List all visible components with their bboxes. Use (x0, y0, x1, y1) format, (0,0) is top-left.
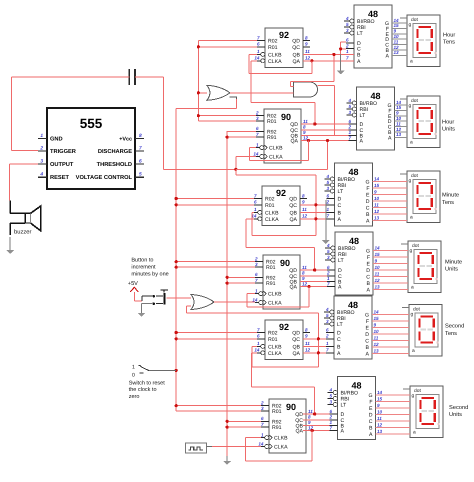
svg-text:D: D (338, 197, 342, 203)
counter U5 7490 (Minute Units) (252, 255, 307, 309)
svg-text:a: a (410, 141, 413, 146)
wire clock to CLKA6 (207, 446, 261, 448)
svg-text:12: 12 (394, 45, 400, 50)
junction (310, 53, 335, 63)
svg-text:13: 13 (375, 285, 381, 290)
svg-text:F: F (369, 400, 372, 406)
svg-text:7: 7 (348, 135, 351, 140)
ground (decoder3) (322, 234, 330, 244)
svg-text:LT: LT (338, 258, 344, 264)
svg-text:8: 8 (302, 193, 305, 198)
display Second Tens (402, 305, 442, 357)
svg-text:DISCHARGE: DISCHARGE (98, 149, 132, 155)
svg-text:GND: GND (50, 137, 63, 143)
svg-text:LT: LT (337, 322, 343, 328)
svg-text:CLKA: CLKA (265, 217, 279, 223)
svg-text:15: 15 (396, 105, 402, 110)
svg-text:48: 48 (370, 91, 380, 101)
svg-text:dot: dot (411, 17, 418, 23)
timer IC U1 555 (38, 108, 144, 189)
svg-text:R01: R01 (265, 203, 275, 209)
svg-text:R01: R01 (266, 265, 276, 271)
decoder U12 7448 (324, 296, 372, 359)
svg-text:Units: Units (449, 411, 462, 418)
svg-text:13: 13 (374, 216, 380, 221)
svg-text:15: 15 (375, 252, 381, 257)
svg-text:3: 3 (326, 186, 329, 191)
svg-text:A: A (341, 429, 345, 435)
svg-text:12: 12 (377, 423, 383, 428)
svg-text:OUTPUT: OUTPUT (50, 162, 74, 168)
svg-text:4: 4 (325, 174, 329, 179)
svg-text:D: D (369, 413, 373, 419)
wire OUTPUT to buzzer (10, 164, 38, 201)
svg-text:F: F (366, 319, 369, 325)
svg-text:11: 11 (394, 39, 399, 44)
svg-text:dot: dot (411, 98, 418, 104)
svg-text:7: 7 (257, 327, 260, 332)
AND gate U9 (294, 82, 318, 97)
decoder U11 7448 (325, 232, 373, 295)
counter U7 7490 (Second Units) (258, 399, 313, 453)
node label Hour Tens (443, 32, 455, 45)
wire QA2 to CLKB2 loop (250, 141, 309, 161)
svg-text:QC: QC (292, 45, 300, 51)
svg-text:11: 11 (374, 336, 379, 341)
svg-text:6: 6 (255, 272, 258, 277)
svg-text:R01: R01 (272, 409, 282, 415)
svg-text:90: 90 (286, 402, 296, 412)
svg-text:g: g (411, 313, 414, 318)
svg-text:6: 6 (257, 334, 260, 339)
svg-text:Units: Units (445, 266, 458, 273)
wire H169 right extension to QA2 (236, 141, 328, 170)
svg-text:8: 8 (308, 415, 311, 420)
wire OR U10 lower input from second-tens carry (187, 306, 319, 367)
svg-text:F: F (367, 255, 370, 261)
junction (234, 168, 237, 171)
svg-text:14: 14 (258, 441, 264, 446)
svg-text:8: 8 (302, 271, 305, 276)
svg-text:13: 13 (374, 349, 380, 354)
wire (decoder to display segments) (392, 18, 407, 56)
svg-text:QB: QB (293, 52, 301, 58)
svg-text:2: 2 (255, 111, 259, 116)
svg-text:CLKB: CLKB (268, 292, 282, 298)
svg-text:TRIGGER: TRIGGER (50, 149, 76, 155)
decoder U8 7448 (344, 5, 392, 68)
wire (decoder to display segments) (376, 390, 411, 434)
svg-text:9: 9 (302, 200, 305, 205)
svg-text:QD: QD (292, 39, 300, 45)
svg-text:9: 9 (305, 42, 308, 47)
junction (317, 337, 320, 354)
svg-text:14: 14 (374, 177, 380, 182)
svg-text:12: 12 (374, 209, 380, 214)
svg-text:3: 3 (329, 399, 332, 404)
svg-text:B: B (337, 344, 341, 350)
svg-text:14: 14 (396, 100, 402, 105)
svg-text:9: 9 (377, 403, 380, 408)
wire decoder1 D,C to ground (341, 42, 346, 64)
svg-text:THRESHOLD: THRESHOLD (97, 162, 132, 168)
svg-text:15: 15 (374, 316, 380, 321)
clock source V1 (186, 443, 207, 453)
svg-text:1: 1 (346, 49, 349, 54)
wire CLKA5 feed from QD6 (251, 353, 314, 414)
svg-text:13: 13 (394, 50, 400, 55)
svg-text:11: 11 (377, 416, 382, 421)
svg-text:zero: zero (129, 394, 140, 400)
svg-text:7: 7 (329, 425, 332, 430)
svg-text:6: 6 (329, 409, 332, 414)
display Second Units (403, 386, 443, 438)
svg-text:8: 8 (303, 125, 306, 130)
svg-text:A: A (366, 352, 370, 358)
svg-text:A: A (367, 288, 371, 294)
svg-text:C: C (366, 275, 370, 281)
svg-text:5: 5 (346, 22, 349, 27)
svg-text:7: 7 (254, 193, 257, 198)
svg-text:4: 4 (325, 307, 329, 312)
svg-text:92: 92 (279, 30, 289, 40)
svg-text:A: A (386, 53, 390, 59)
svg-text:g: g (410, 249, 413, 254)
svg-text:CLKB: CLKB (274, 436, 288, 442)
decoder U10 7448 (325, 163, 373, 226)
node label Minute Units (445, 258, 462, 272)
svg-text:CLKA: CLKA (268, 301, 282, 307)
OR gate U8 (207, 85, 230, 100)
junction (307, 122, 329, 142)
svg-text:Units: Units (442, 126, 455, 133)
svg-text:1: 1 (261, 432, 264, 437)
svg-text:F: F (366, 186, 369, 192)
svg-text:1: 1 (257, 341, 260, 346)
svg-text:LT: LT (341, 403, 347, 409)
svg-text:E: E (366, 193, 370, 199)
svg-text:g: g (409, 179, 412, 184)
svg-text:3: 3 (40, 159, 43, 165)
svg-text:a: a (410, 216, 413, 221)
svg-text:3: 3 (255, 262, 258, 267)
svg-text:g: g (409, 23, 412, 28)
svg-text:3: 3 (346, 28, 349, 33)
wire QD6,QC6,QB6,QA6 to decoder6 (303, 414, 330, 431)
svg-text:A: A (366, 219, 370, 225)
node label Minute Tens (442, 192, 459, 206)
svg-text:1: 1 (257, 49, 260, 54)
wire push button lower contact to ground (142, 304, 153, 308)
junction (V5 taps) (226, 136, 229, 429)
node label Hour Units (442, 119, 455, 132)
svg-text:14: 14 (254, 348, 260, 353)
svg-text:Hour: Hour (442, 119, 454, 125)
svg-text:RESET: RESET (50, 175, 69, 181)
svg-text:3: 3 (326, 319, 329, 324)
svg-text:1: 1 (326, 207, 329, 212)
svg-text:3: 3 (261, 406, 264, 411)
svg-text:5: 5 (139, 172, 142, 178)
svg-text:G: G (368, 393, 372, 399)
svg-text:VOLTAGE CONTROL: VOLTAGE CONTROL (76, 175, 133, 181)
svg-text:9: 9 (394, 29, 397, 34)
svg-text:15: 15 (377, 397, 383, 402)
svg-text:D: D (365, 332, 369, 338)
svg-text:10: 10 (377, 410, 383, 415)
wire CLKA1 feed from QD2 (251, 61, 315, 124)
svg-text:90: 90 (280, 258, 290, 268)
svg-text:6: 6 (327, 265, 330, 270)
svg-text:92: 92 (276, 188, 286, 198)
svg-text:A: A (338, 285, 342, 291)
wire OR U8 output to AND U9 (230, 92, 294, 94)
display Hour Tens (400, 15, 440, 67)
OR gate U10 (191, 295, 214, 310)
svg-text:14: 14 (394, 18, 400, 23)
wire QA4 to CLKB4 loop (247, 287, 309, 308)
junction (hour reset) (197, 45, 200, 117)
svg-text:G: G (366, 249, 370, 255)
svg-text:6: 6 (261, 416, 264, 421)
svg-text:3: 3 (348, 110, 351, 115)
svg-text:R91: R91 (267, 135, 277, 141)
svg-text:4: 4 (345, 16, 349, 21)
svg-text:Switch to reset: Switch to reset (129, 380, 166, 386)
svg-text:14: 14 (253, 151, 259, 156)
svg-text:Minute: Minute (445, 258, 462, 265)
svg-text:4: 4 (39, 172, 43, 178)
svg-text:R02: R02 (268, 39, 278, 45)
junction (314, 203, 317, 220)
junction (311, 412, 317, 432)
svg-text:12: 12 (305, 348, 311, 353)
svg-text:QD: QD (292, 331, 300, 337)
svg-text:7: 7 (255, 278, 258, 283)
svg-text:R91: R91 (266, 281, 276, 287)
svg-text:11: 11 (302, 265, 307, 270)
svg-text:14: 14 (254, 56, 260, 61)
decoder U13 7448 (328, 377, 376, 440)
svg-text:6: 6 (348, 119, 351, 124)
svg-text:a: a (413, 431, 416, 436)
svg-text:Second: Second (445, 323, 464, 330)
counter U4 7492 (Minute Tens) (251, 186, 307, 226)
svg-text:QA: QA (293, 59, 301, 65)
svg-text:5: 5 (326, 180, 329, 185)
svg-text:2: 2 (325, 334, 329, 339)
wire QD2,QC2,QB2,QA2 to decoder2 (301, 124, 349, 141)
node label Second Tens (445, 323, 464, 337)
svg-text:B: B (357, 52, 361, 58)
svg-text:Tens: Tens (442, 200, 454, 206)
svg-text:Tens: Tens (445, 331, 457, 337)
svg-text:14: 14 (374, 310, 380, 315)
svg-text:7: 7 (261, 422, 264, 427)
svg-text:dot: dot (411, 173, 418, 179)
svg-text:1: 1 (255, 288, 258, 293)
svg-text:4: 4 (326, 243, 330, 248)
wire OR U10 output to CLKA4 (214, 301, 255, 303)
wire QC5,QB5,QA5 to decoder5 (303, 339, 326, 353)
svg-text:48: 48 (351, 381, 361, 391)
svg-text:Minute: Minute (442, 192, 459, 199)
wire (decoder to display segments) (373, 177, 408, 221)
svg-text:R01: R01 (268, 337, 278, 343)
wire cap right lead down (V3) (164, 77, 236, 169)
svg-text:13: 13 (377, 429, 383, 434)
node +5V (128, 281, 139, 292)
svg-text:14: 14 (377, 390, 383, 395)
ground (buzzer) (6, 237, 14, 254)
decoder U9 7448 (347, 87, 395, 150)
svg-text:12: 12 (302, 214, 308, 219)
svg-text:CLKA: CLKA (268, 351, 282, 357)
svg-text:a: a (410, 60, 413, 65)
svg-text:11: 11 (305, 341, 310, 346)
wire QC3,QB3,QA3 to decoder3 (300, 205, 327, 219)
svg-text:2: 2 (345, 43, 349, 48)
svg-text:7: 7 (257, 35, 260, 40)
svg-text:g: g (409, 104, 412, 109)
svg-text:R01: R01 (268, 45, 278, 51)
svg-text:12: 12 (375, 278, 381, 283)
svg-text:B: B (369, 426, 373, 432)
svg-text:LT: LT (338, 189, 344, 195)
svg-text:10: 10 (374, 329, 380, 334)
svg-text:LT: LT (357, 31, 363, 37)
ground (push button) (138, 308, 146, 317)
svg-text:B: B (338, 210, 342, 216)
svg-text:2: 2 (347, 125, 351, 130)
svg-text:14: 14 (375, 246, 381, 251)
svg-text:7: 7 (326, 214, 329, 219)
svg-text:10: 10 (394, 34, 400, 39)
svg-text:10: 10 (375, 265, 381, 270)
push button S2 (152, 290, 168, 305)
wire CLKA3 feed from QD4 (246, 219, 315, 270)
wire AND U9 output to B2 net (318, 86, 335, 137)
svg-text:0: 0 (132, 373, 135, 379)
svg-text:buzzer: buzzer (14, 228, 31, 235)
wire ground bus V5 (227, 131, 261, 456)
svg-text:B: B (366, 212, 370, 218)
svg-text:1: 1 (132, 365, 135, 371)
wire push button to OR U10 (167, 297, 192, 299)
svg-text:CLKA: CLKA (268, 59, 282, 65)
svg-text:QB: QB (293, 344, 301, 350)
svg-text:E: E (366, 326, 370, 332)
svg-text:7: 7 (256, 132, 259, 137)
svg-text:D: D (366, 199, 370, 205)
wire QA1 to CLKB1 loop (249, 54, 312, 73)
wire hour reset net (198, 41, 257, 122)
svg-text:C: C (338, 203, 342, 209)
svg-text:6: 6 (139, 159, 142, 165)
svg-text:2: 2 (39, 146, 43, 152)
svg-text:A: A (369, 432, 373, 438)
capacitor C1 (129, 69, 135, 85)
svg-text:1: 1 (326, 341, 329, 346)
wire QB1 to decoder B (303, 53, 354, 55)
counter U6 7492 (Second Tens) (254, 320, 310, 360)
svg-text:R91: R91 (272, 425, 282, 431)
svg-text:15: 15 (394, 23, 400, 28)
display Minute Units (401, 241, 441, 293)
wire master reset vertical V4 (176, 97, 261, 411)
svg-text:dot: dot (414, 388, 421, 394)
wire V6 down to row3 channel (236, 169, 316, 235)
svg-text:12: 12 (302, 281, 308, 286)
svg-text:R02: R02 (265, 197, 275, 203)
svg-text:CLKB: CLKB (265, 210, 279, 216)
svg-text:A: A (360, 139, 364, 145)
svg-text:B: B (366, 345, 370, 351)
display Hour Units (400, 96, 440, 148)
svg-text:7: 7 (327, 281, 330, 286)
svg-text:increment: increment (131, 265, 156, 271)
svg-text:D: D (337, 331, 341, 337)
svg-text:+Vcc: +Vcc (119, 137, 132, 143)
svg-text:QA: QA (291, 139, 299, 145)
svg-text:Second: Second (449, 404, 468, 411)
svg-text:3: 3 (256, 116, 259, 121)
svg-text:8: 8 (305, 327, 308, 332)
svg-text:9: 9 (374, 323, 377, 328)
svg-text:6: 6 (326, 193, 329, 198)
svg-text:C: C (337, 337, 341, 343)
wire V6 to CLKA U3 (236, 157, 256, 170)
svg-text:12: 12 (396, 127, 402, 132)
wire switch to reset bus (149, 370, 176, 372)
svg-text:9: 9 (305, 334, 308, 339)
svg-text:48: 48 (348, 300, 358, 310)
svg-text:11: 11 (374, 203, 379, 208)
svg-text:G: G (365, 180, 369, 186)
svg-text:11: 11 (308, 409, 313, 414)
svg-text:2: 2 (326, 271, 330, 276)
svg-text:7: 7 (139, 146, 142, 152)
svg-text:2: 2 (254, 257, 258, 262)
svg-text:A: A (357, 59, 361, 65)
svg-text:90: 90 (281, 112, 291, 122)
svg-text:10: 10 (396, 116, 402, 121)
svg-text:QA: QA (290, 217, 298, 223)
svg-text:5: 5 (327, 249, 330, 254)
svg-text:6: 6 (257, 42, 260, 47)
ground (bus V5) (223, 456, 231, 465)
svg-text:11: 11 (302, 207, 307, 212)
svg-text:12: 12 (305, 56, 311, 61)
svg-text:A: A (338, 217, 342, 223)
svg-text:9: 9 (374, 190, 377, 195)
svg-text:R02: R02 (268, 331, 278, 337)
wire trigger net: cap left lead to TRIGGER (11, 77, 163, 151)
ground (decoder1) (337, 63, 345, 75)
svg-text:8: 8 (305, 35, 308, 40)
svg-text:5: 5 (348, 104, 351, 109)
node label switch annotation (129, 380, 166, 400)
svg-text:a: a (412, 349, 415, 354)
svg-text:QD: QD (289, 197, 297, 203)
svg-text:QB: QB (290, 210, 298, 216)
svg-text:7: 7 (346, 56, 349, 61)
wire (decoder to display segments) (395, 100, 408, 138)
svg-text:CLKA: CLKA (269, 155, 283, 161)
svg-text:CLKB: CLKB (269, 146, 283, 152)
svg-text:5: 5 (326, 313, 329, 318)
wire CLKB U4 loop (row3) (252, 213, 316, 236)
